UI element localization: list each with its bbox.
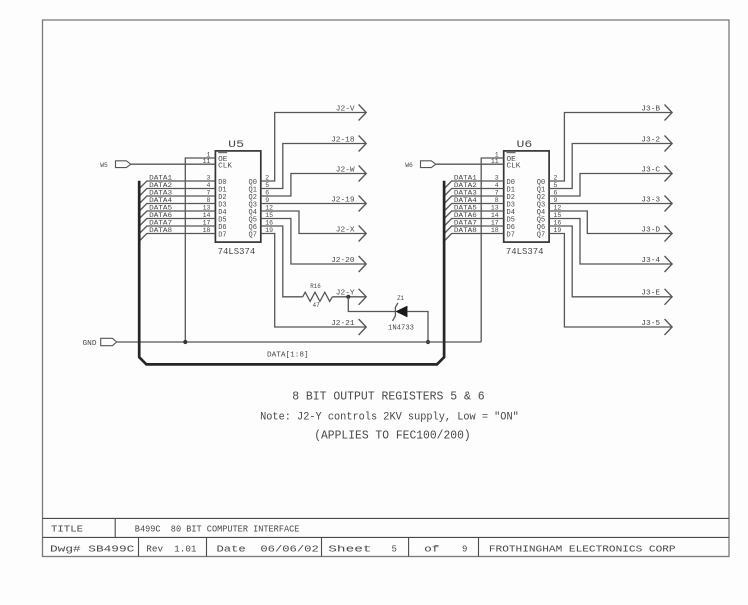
svg-text:DATA1: DATA1 (149, 175, 172, 182)
wire W5 to U5 CLK pin 11 (131, 163, 216, 165)
connector arrow J3-4 (665, 256, 673, 272)
wire DATA5 tap from bus to U5 D4 with net label DATA5 (140, 205, 216, 219)
svg-text:DATA2: DATA2 (454, 182, 477, 189)
input tag W5 symbol (116, 161, 131, 168)
connector arrow J2-X (359, 226, 367, 242)
ground tag symbol (101, 338, 117, 345)
svg-text:DATA8: DATA8 (149, 227, 172, 234)
connector arrow J2-19 (359, 196, 367, 212)
resistor R16 (303, 292, 333, 301)
svg-text:DATA4: DATA4 (149, 197, 172, 204)
wire U6 Q7 pin 19 to connector J3-5 (549, 234, 672, 328)
svg-text:B499C 80 BIT COMPUTER INTERFA: B499C 80 BIT COMPUTER INTERFACE (135, 524, 300, 534)
svg-text:CLK: CLK (507, 162, 522, 170)
wire DATA1 tap from bus to U6 D0 with net label DATA1 (445, 175, 504, 189)
bus DATA[1:8] thick trunk (139, 181, 444, 365)
svg-text:8 BIT OUTPUT REGISTERS 5 & 6: 8 BIT OUTPUT REGISTERS 5 & 6 (292, 390, 485, 403)
U6 pin names OE CLK D0-D7 Q0-Q7 (OE with overbar) (507, 153, 546, 240)
wire DATA4 tap from bus to U6 D3 with net label DATA4 (445, 197, 504, 211)
wire Z1 cathode down to GND rail (407, 312, 428, 343)
svg-text:J3-D: J3-D (641, 226, 660, 234)
svg-text:J2-X: J2-X (336, 226, 355, 234)
wire U6 Q2 pin 6 to connector J3-C (549, 174, 672, 197)
wire U6 Q6 pin 16 to connector J3-E (549, 226, 672, 297)
wire U6 Q4 pin 12 to connector J3-D (549, 211, 672, 234)
svg-text:DATA8: DATA8 (454, 227, 477, 234)
input tag W6 symbol (421, 161, 436, 168)
svg-text:74LS374: 74LS374 (218, 247, 256, 257)
wire U5 Q0 pin 2 to connector J2-V (261, 113, 366, 182)
svg-text:W6: W6 (405, 162, 413, 169)
wire DATA3 tap from bus to U6 D2 with net label DATA3 (445, 190, 504, 204)
connector arrow J2-Y (359, 289, 367, 305)
connector arrow J2-20 (359, 256, 367, 272)
svg-text:DATA7: DATA7 (454, 220, 477, 227)
svg-text:W5: W5 (100, 162, 108, 169)
wire U6 Q1 pin 5 to connector J3-2 (549, 144, 672, 189)
svg-text:R16: R16 (310, 283, 321, 290)
junction node at J2-Y (346, 295, 350, 299)
wire DATA8 tap from bus to U6 D7 with net label DATA8 (445, 227, 504, 241)
svg-text:DATA7: DATA7 (149, 220, 172, 227)
title block (43, 518, 730, 556)
svg-text:DATA4: DATA4 (454, 197, 477, 204)
svg-text:J2-21: J2-21 (331, 320, 355, 328)
svg-text:U5: U5 (228, 140, 244, 151)
svg-text:Sheet: Sheet (328, 544, 371, 554)
connector arrow J3-D (665, 226, 673, 242)
wire DATA2 tap from bus to U6 D1 with net label DATA2 (445, 182, 504, 196)
svg-text:of: of (424, 544, 439, 554)
svg-text:1N4733: 1N4733 (388, 325, 414, 333)
wire W6 to U6 CLK pin 11 (436, 163, 504, 165)
svg-text:J2-20: J2-20 (331, 257, 355, 265)
svg-text:DATA3: DATA3 (149, 190, 172, 197)
wire DATA1 tap from bus to U5 D0 with net label DATA1 (140, 175, 216, 189)
wire R16 to J2-Y arrow (332, 296, 366, 298)
svg-text:J2-18: J2-18 (331, 136, 355, 144)
wire DATA8 tap from bus to U5 D7 with net label DATA8 (140, 227, 216, 241)
wire U5 Q7 pin 19 to connector J2-21 (261, 234, 366, 328)
svg-text:J2-W: J2-W (336, 166, 355, 174)
wire DATA6 tap from bus to U5 D5 with net label DATA6 (140, 212, 216, 226)
svg-text:Date 06/06/02: Date 06/06/02 (217, 544, 319, 554)
wire DATA5 tap from bus to U6 D4 with net label DATA5 (445, 205, 504, 219)
svg-text:J2-19: J2-19 (331, 196, 355, 204)
zener diode Z1 symbol (393, 303, 408, 321)
wire U5 Q5 pin 15 to connector J2-20 (261, 219, 366, 265)
svg-text:J3-3: J3-3 (641, 196, 660, 204)
svg-text:5: 5 (392, 544, 397, 554)
wire J2-Y node down to zener Z1 (348, 297, 395, 312)
wire DATA4 tap from bus to U5 D3 with net label DATA4 (140, 197, 216, 211)
svg-text:D7: D7 (507, 231, 515, 239)
svg-text:GND: GND (83, 340, 97, 348)
svg-text:DATA3: DATA3 (454, 190, 477, 197)
svg-text:DATA5: DATA5 (454, 205, 477, 212)
connector arrow J3-2 (665, 136, 673, 152)
connector arrow J3-C (665, 166, 673, 182)
svg-text:D7: D7 (218, 231, 226, 239)
svg-text:Note: J2-Y controls 2KV supply: Note: J2-Y controls 2KV supply, Low = "O… (260, 412, 519, 424)
connector arrow J2-W (359, 166, 367, 182)
svg-text:U6: U6 (517, 140, 533, 151)
svg-text:FROTHINGHAM ELECTRONICS CORP: FROTHINGHAM ELECTRONICS CORP (489, 544, 676, 554)
svg-text:9: 9 (462, 544, 467, 554)
svg-text:CLK: CLK (218, 162, 233, 170)
svg-text:J3-B: J3-B (641, 105, 660, 113)
wire DATA6 tap from bus to U6 D5 with net label DATA6 (445, 212, 504, 226)
svg-text:Q7: Q7 (249, 231, 257, 239)
svg-text:J3-2: J3-2 (641, 136, 660, 144)
U6 pin numbers 1 11 3 4 7 8 13 14 17 18 / 2 5 6 9 12 15 16 19 (491, 151, 561, 234)
wire DATA2 tap from bus to U5 D1 with net label DATA2 (140, 182, 216, 196)
svg-text:Q7: Q7 (537, 231, 545, 239)
svg-text:TITLE: TITLE (51, 524, 83, 534)
junction dot Z1/GND rail (426, 340, 430, 344)
U5 pin names OE CLK D0-D7 Q0-Q7 (OE with overbar) (218, 153, 257, 240)
wire U6 OE pin 1 down to GND rail (481, 158, 504, 342)
connector arrow J2-21 (359, 319, 367, 335)
wire U5 Q4 pin 12 to connector J2-X (261, 211, 366, 234)
wire U5 Q6 pin 16 down to R16 / J2-Y node (261, 226, 303, 297)
svg-text:DATA6: DATA6 (149, 212, 172, 219)
svg-text:DATA5: DATA5 (149, 205, 172, 212)
U5 pin numbers 1 11 3 4 7 8 13 14 17 18 / 2 5 6 9 12 15 16 19 (203, 151, 273, 234)
wire U5 Q1 pin 5 to connector J2-18 (261, 144, 366, 189)
wire U5 Q3 pin 9 to connector J2-19 (261, 203, 366, 205)
connector arrow J2-V (359, 105, 367, 121)
svg-text:Dwg# SB499C: Dwg# SB499C (50, 544, 135, 554)
junction dot U5 OE / GND rail (183, 340, 187, 344)
connector arrow J3-5 (665, 319, 673, 335)
svg-text:J3-E: J3-E (641, 290, 660, 298)
wire U6 Q5 pin 15 to connector J3-4 (549, 219, 672, 265)
svg-text:47: 47 (313, 302, 320, 309)
wire DATA7 tap from bus to U5 D6 with net label DATA7 (140, 220, 216, 234)
svg-text:74LS374: 74LS374 (506, 247, 544, 257)
connector arrow J3-E (665, 289, 673, 305)
svg-text:J3-4: J3-4 (641, 257, 660, 265)
wire U5 OE pin 1 down to GND rail (185, 158, 215, 342)
IC U5 74LS374 body (215, 151, 260, 242)
connector arrow J3-3 (665, 196, 673, 212)
svg-text:DATA1: DATA1 (454, 175, 477, 182)
svg-text:(APPLIES TO FEC100/200): (APPLIES TO FEC100/200) (314, 430, 471, 443)
wire U6 Q3 pin 9 to connector J3-3 (549, 203, 672, 205)
svg-text:J2-V: J2-V (336, 105, 355, 113)
svg-text:DATA2: DATA2 (149, 182, 172, 189)
wire U5 Q2 pin 6 to connector J2-W (261, 174, 366, 197)
wire U6 Q0 pin 2 to connector J3-B (549, 113, 672, 182)
svg-text:DATA6: DATA6 (454, 212, 477, 219)
svg-text:Z1: Z1 (397, 295, 404, 302)
svg-text:DATA[1:8]: DATA[1:8] (267, 352, 309, 360)
svg-text:Rev 1.01: Rev 1.01 (146, 544, 196, 554)
wire GND rail (117, 341, 482, 343)
connector arrow J2-18 (359, 136, 367, 152)
wire DATA3 tap from bus to U5 D2 with net label DATA3 (140, 190, 216, 204)
connector arrow J3-B (665, 105, 673, 121)
wire DATA7 tap from bus to U6 D6 with net label DATA7 (445, 220, 504, 234)
svg-text:J3-5: J3-5 (641, 320, 660, 328)
IC U6 74LS374 body (504, 151, 549, 242)
svg-text:J3-C: J3-C (641, 166, 660, 174)
